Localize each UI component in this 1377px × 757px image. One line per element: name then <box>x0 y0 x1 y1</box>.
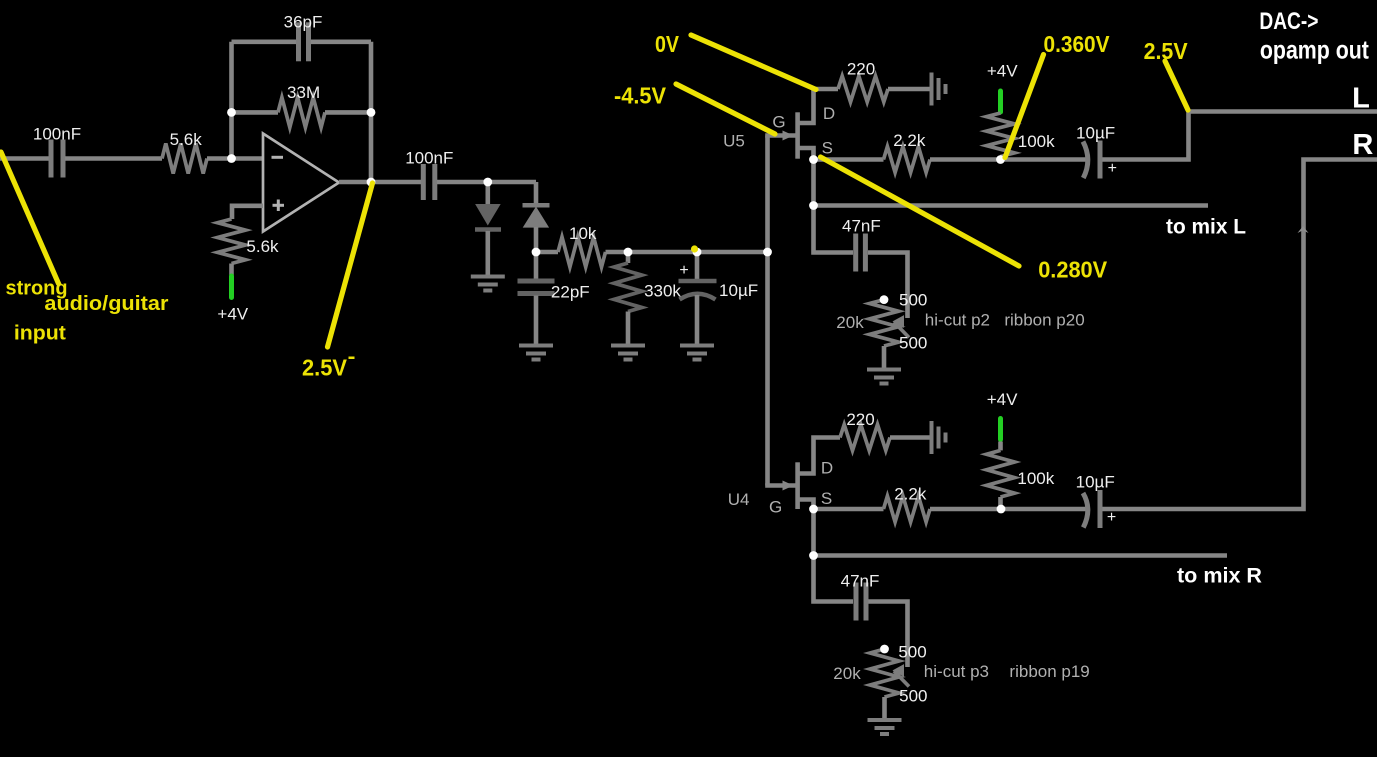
node E 100k lower junction <box>997 505 1006 514</box>
capacitor C4 22pF <box>518 281 555 294</box>
annotation yellow dot at node C <box>691 245 698 252</box>
svg-text:D: D <box>823 104 835 123</box>
svg-text:20k: 20k <box>833 664 861 683</box>
node gate bus junction <box>763 248 772 257</box>
svg-text:100nF: 100nF <box>405 149 453 168</box>
svg-text:0V: 0V <box>655 31 680 57</box>
resistor R8 100k upper <box>987 113 1015 157</box>
svg-text:10µF: 10µF <box>1076 124 1115 143</box>
wire C3 to diodes <box>437 180 536 185</box>
transistor U5 JFET <box>783 112 800 158</box>
wire S rail lower <box>814 507 884 512</box>
wire R3 bottom lead <box>229 264 234 276</box>
svg-text:500: 500 <box>899 687 927 706</box>
wire node to 10k <box>536 250 558 255</box>
svg-text:5.6k: 5.6k <box>246 237 279 256</box>
wire to mix L <box>814 203 1209 208</box>
svg-text:2.5V: 2.5V <box>302 355 348 381</box>
svg-text:2.2k: 2.2k <box>893 131 926 150</box>
svg-text:0.280V: 0.280V <box>1038 257 1108 283</box>
annotation line 0.280V <box>821 157 1020 266</box>
svg-text:220: 220 <box>846 410 874 429</box>
node feedback left <box>227 108 236 117</box>
resistor R1 5.6k <box>162 144 207 174</box>
annotation line 0V <box>691 35 816 90</box>
node feedback right <box>367 108 376 117</box>
svg-text:22pF: 22pF <box>551 283 590 302</box>
capacitor C9 10uF lower output <box>1083 490 1100 528</box>
ground under P1 <box>867 370 901 384</box>
svg-text:hi-cut p2: hi-cut p2 <box>925 311 990 330</box>
resistor R3 5.6k bias <box>218 219 246 264</box>
op-amp U1 <box>263 134 339 232</box>
capacitor C1 100nF input <box>51 140 63 178</box>
wire gate bus vertical <box>765 136 770 486</box>
capacitor C3 100nF output <box>423 164 435 200</box>
wire R1 to op-amp inverting input <box>207 156 263 161</box>
annotation line 2.5V opamp out <box>328 183 373 347</box>
node P1 top terminal <box>880 295 889 304</box>
wire op-amp noninverting input <box>232 206 263 219</box>
svg-text:500: 500 <box>899 291 927 310</box>
wire 22pF to ground <box>534 296 539 345</box>
annotation small dash <box>349 357 355 360</box>
node C 10uF junction <box>693 248 702 257</box>
ground under P2 <box>868 720 902 734</box>
wire 330k to ground <box>626 312 631 345</box>
svg-text:D: D <box>821 459 833 478</box>
wire 47nF branch down <box>814 206 854 253</box>
wire U4 gate lead <box>765 483 796 488</box>
annotation line 0.360V <box>1005 55 1044 158</box>
node U5 source <box>809 155 818 164</box>
resistor R7 2.2k <box>884 147 931 173</box>
capacitor C8 47nF upper <box>856 234 866 272</box>
wire P2 to ground <box>882 697 887 719</box>
svg-text:DAC->: DAC-> <box>1259 8 1318 35</box>
diode D1 (down) <box>475 205 501 230</box>
diode D2 (up) <box>523 205 550 227</box>
svg-text:36pF: 36pF <box>284 13 323 32</box>
node B 330k junction <box>624 248 633 257</box>
wire 10k to gate bus <box>606 250 768 255</box>
wire 47nF lower branch <box>814 556 854 602</box>
svg-text:2.2k: 2.2k <box>894 485 927 504</box>
svg-text:220: 220 <box>847 60 875 79</box>
potentiometer P2 20k <box>870 649 899 697</box>
capacitor C2 36pF feedback <box>299 22 309 61</box>
wire R output line <box>1103 160 1377 510</box>
node to-mix-L junction <box>809 201 818 210</box>
wire R9 to ground <box>890 435 930 440</box>
wire 330k top lead <box>626 252 631 263</box>
wire R10 to C9 <box>930 507 1087 512</box>
svg-text:+4V: +4V <box>987 390 1018 409</box>
svg-text:10µF: 10µF <box>1076 473 1115 492</box>
ground sideways upper <box>932 73 946 106</box>
svg-text:U4: U4 <box>728 490 750 509</box>
svg-text:G: G <box>769 498 782 517</box>
wire U5 source <box>800 148 814 206</box>
wire U4 source <box>800 500 814 556</box>
wire feedback right vertical <box>369 42 374 182</box>
wire D2 anode to node <box>534 227 539 252</box>
wire R6 to ground <box>888 87 930 92</box>
supply +4V lead (green) V1 <box>229 276 234 298</box>
svg-text:hi-cut p3: hi-cut p3 <box>924 662 989 681</box>
ground under D1 <box>471 277 505 291</box>
potentiometer P1 wiper arrow <box>894 316 910 338</box>
node D 100k upper junction <box>996 155 1005 164</box>
svg-text:500: 500 <box>898 643 926 662</box>
wire D2 cathode <box>534 182 539 204</box>
svg-text:S: S <box>822 139 833 158</box>
node inverting input junction <box>227 154 236 163</box>
svg-text:to mix R: to mix R <box>1177 565 1262 588</box>
wire U5 gate lead <box>765 133 796 138</box>
svg-text:U5: U5 <box>723 132 745 151</box>
svg-text:opamp out: opamp out <box>1260 35 1369 65</box>
capacitor C6 10uF upper output <box>1083 141 1100 179</box>
svg-text:330k: 330k <box>644 282 681 301</box>
annotation line -4.5V <box>676 84 775 134</box>
wire R7 to C6 <box>930 157 1087 162</box>
svg-text:S: S <box>821 489 832 508</box>
node U4 source <box>809 505 818 514</box>
node to-mix-R junction <box>809 551 818 560</box>
svg-text:47nF: 47nF <box>842 217 881 236</box>
wire V3 to R11 <box>998 442 1003 451</box>
svg-text:10k: 10k <box>569 224 597 243</box>
wire R11 to rail <box>998 497 1003 509</box>
svg-text:G: G <box>772 113 785 132</box>
wire D1 cathode to ground <box>485 231 490 275</box>
supply +4V lead (green) V3 <box>998 419 1003 440</box>
transistor U4 JFET <box>783 462 800 509</box>
svg-text:47nF: 47nF <box>841 572 880 591</box>
node diode junction <box>483 178 492 187</box>
svg-text:R: R <box>1352 129 1373 161</box>
resistor R4 10k <box>558 237 606 267</box>
wire C5 top lead <box>695 252 700 279</box>
svg-text:+4V: +4V <box>217 305 248 324</box>
wire 22pF top <box>534 252 539 280</box>
resistor R9 220 lower <box>840 425 890 451</box>
svg-text:100k: 100k <box>1017 469 1054 488</box>
ground under C5 <box>680 346 714 360</box>
wire S rail upper <box>814 157 884 162</box>
capacitor C10 47nF lower <box>856 583 866 621</box>
ground sideways lower <box>932 421 946 454</box>
wire C5 to ground <box>695 295 700 344</box>
svg-text:+: + <box>1107 509 1116 526</box>
wire 33M left lead <box>232 110 279 115</box>
svg-text:500: 500 <box>899 334 927 353</box>
wire 33M right lead <box>325 110 371 115</box>
wire D1 anode <box>485 182 490 205</box>
wire junction up to feedback <box>229 42 234 159</box>
ground under R5 <box>611 346 645 360</box>
wire to mix R <box>814 553 1228 558</box>
wire feedback top right <box>311 39 371 44</box>
resistor R6 220 <box>838 76 888 102</box>
wire U5 drain <box>800 89 839 123</box>
node P2 top terminal <box>880 645 889 654</box>
svg-text:input: input <box>14 323 66 345</box>
svg-text:+4V: +4V <box>987 62 1018 81</box>
node op-amp output <box>367 178 376 187</box>
svg-text:ribbon p20: ribbon p20 <box>1004 311 1084 330</box>
wire op-amp output <box>339 180 421 185</box>
svg-text:5.6k: 5.6k <box>170 130 203 149</box>
svg-text:-4.5V: -4.5V <box>614 83 667 109</box>
svg-text:100nF: 100nF <box>33 125 81 144</box>
potentiometer P1 20k <box>870 300 899 346</box>
wire C10 to wiper <box>869 602 908 668</box>
wire input left <box>0 156 49 161</box>
svg-text:to mix L: to mix L <box>1166 216 1246 239</box>
svg-text:+: + <box>1108 160 1117 177</box>
annotation line strong input <box>1 152 59 284</box>
svg-text:audio/guitar: audio/guitar <box>44 293 168 315</box>
svg-text:L: L <box>1352 83 1370 115</box>
resistor R5 330k <box>614 263 642 312</box>
resistor R10 2.2k lower <box>884 496 931 522</box>
supply +4V lead (green) V2 <box>998 91 1003 112</box>
svg-text:+: + <box>679 262 688 279</box>
svg-text:100k: 100k <box>1018 132 1055 151</box>
resistor R2 33M feedback <box>278 97 325 127</box>
wire C8 to wiper <box>868 253 908 319</box>
arrow on R line <box>1298 226 1309 233</box>
wire C1 to R1 <box>65 156 162 161</box>
svg-text:20k: 20k <box>836 313 864 332</box>
svg-text:0.360V: 0.360V <box>1044 31 1111 57</box>
potentiometer P2 wiper arrow <box>894 665 910 687</box>
resistor R11 100k lower <box>987 450 1015 497</box>
ground under C4 <box>519 346 553 360</box>
wire P1 to ground <box>882 346 887 368</box>
wire C6 to L corner <box>1103 112 1377 160</box>
svg-text:10µF: 10µF <box>719 281 758 300</box>
wire feedback top left <box>232 39 297 44</box>
wire U4 drain <box>800 438 841 474</box>
svg-text:ribbon p19: ribbon p19 <box>1009 662 1089 681</box>
node A filter input <box>532 248 541 257</box>
svg-text:33M: 33M <box>287 83 320 102</box>
annotation line 2.5V top <box>1165 61 1188 110</box>
capacitor C5 10uF polarized <box>679 281 717 300</box>
